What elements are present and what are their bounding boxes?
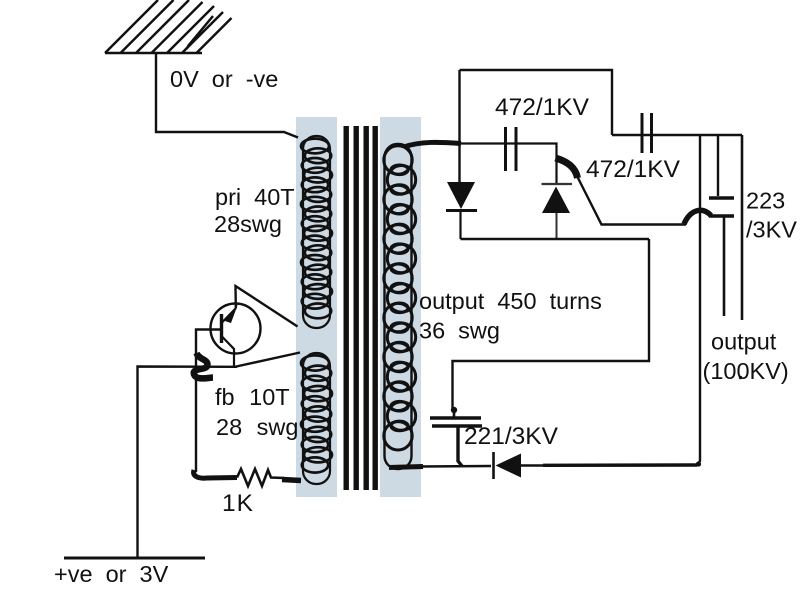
svg-text:1K: 1K xyxy=(222,490,254,517)
wire top rail xyxy=(460,70,613,135)
wire emitter junction to feedback top xyxy=(234,353,300,368)
svg-text:fb 10T: fb 10T xyxy=(215,384,290,410)
primary side former band xyxy=(296,117,337,497)
wire collector to primary bottom xyxy=(236,286,298,327)
transformer core laminations xyxy=(344,126,378,490)
wire +3V rail to emitter junction xyxy=(138,367,238,559)
capacitor C2 472/1KV xyxy=(642,113,652,153)
wire secondary bottom lead (thick) xyxy=(389,467,423,468)
diode D1 xyxy=(446,182,477,239)
wire bottom rail to D3 xyxy=(420,465,491,468)
svg-text:36 swg: 36 swg xyxy=(419,318,500,344)
junction hook (hand-drawn blob) xyxy=(194,353,213,378)
wire base rail (base to resistor) xyxy=(196,330,222,473)
svg-text:output 450 turns: output 450 turns xyxy=(419,288,602,314)
svg-text:0V or -ve: 0V or -ve xyxy=(170,66,278,92)
transistor Q1 xyxy=(211,304,261,368)
ground symbol (0V) xyxy=(105,0,232,53)
secondary side former band xyxy=(380,117,421,497)
junction node dot xyxy=(451,407,457,413)
capacitor C4 223/3KV xyxy=(709,198,734,316)
capacitor C3 221/3KV xyxy=(430,410,482,466)
wire HV top rail xyxy=(612,134,742,136)
svg-text:(100KV): (100KV) xyxy=(703,358,789,384)
thick joint at D2 cathode xyxy=(556,158,578,178)
svg-text:28 swg: 28 swg xyxy=(216,414,298,440)
wire doubler bottom rail xyxy=(461,238,650,240)
svg-text:output: output xyxy=(711,329,777,355)
diode D2 xyxy=(542,184,573,239)
svg-text:pri 40T: pri 40T xyxy=(215,184,295,210)
svg-text:472/1KV: 472/1KV xyxy=(586,156,681,183)
diode D3 xyxy=(494,452,522,479)
feedback winding fb 10T xyxy=(301,353,332,484)
svg-text:28swg: 28swg xyxy=(214,211,282,237)
wire secondary top lead (thick) xyxy=(404,142,461,147)
wire node A vertical xyxy=(458,70,460,182)
svg-text:221/3KV: 221/3KV xyxy=(464,423,559,450)
svg-text:/3KV: /3KV xyxy=(746,217,797,243)
resistor R1 1K with end blobs xyxy=(194,470,237,478)
wire D2 cathode to C4 bottom (slant + hump over riser) xyxy=(578,177,687,225)
wire rail to C3 top xyxy=(453,239,650,408)
primary winding pri 40T xyxy=(301,136,332,328)
wire rail to output terminal xyxy=(741,135,744,320)
wire D3 to HV rail riser xyxy=(521,464,545,466)
svg-text:+ve or 3V: +ve or 3V xyxy=(54,561,169,587)
wire ground to primary top xyxy=(156,53,298,138)
svg-text:223: 223 xyxy=(746,188,785,214)
svg-text:472/1KV: 472/1KV xyxy=(495,94,590,121)
capacitor C1 472/1KV xyxy=(506,127,517,171)
wire rail to C4 top xyxy=(717,135,719,196)
wire node A to D2 top xyxy=(460,144,557,185)
battery terminal bar (+ve) xyxy=(64,557,205,560)
output winding 450 turns xyxy=(384,144,416,469)
